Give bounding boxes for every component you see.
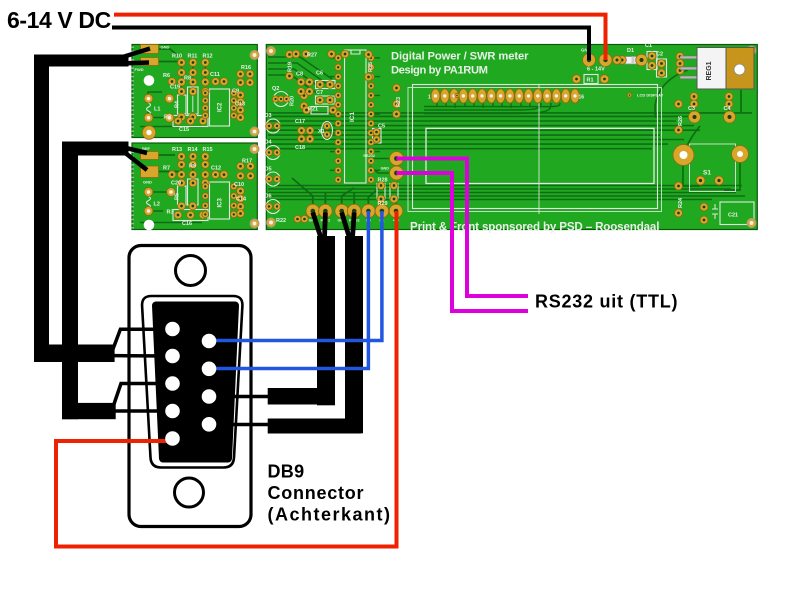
svg-text:R9: R9 (189, 164, 196, 170)
svg-text:R28: R28 (378, 178, 388, 184)
svg-text:IC3: IC3 (218, 198, 224, 208)
svg-text:Print & Front sponsored by PSD: Print & Front sponsored by PSD – Roosend… (410, 221, 659, 234)
svg-text:R22: R22 (276, 218, 286, 224)
svg-text:C17: C17 (295, 119, 305, 125)
svg-text:R12: R12 (203, 54, 213, 60)
svg-text:D3: D3 (265, 113, 272, 119)
svg-text:R1: R1 (587, 78, 594, 84)
wire A stub to pin2 (113, 354, 173, 358)
svg-text:C20: C20 (171, 181, 181, 187)
svg-text:R10: R10 (172, 54, 182, 60)
wire C stub to pin8 (209, 395, 269, 399)
board edge serration (131, 47, 134, 229)
wire D (to pin9) thick black (268, 236, 363, 434)
svg-text:R23: R23 (396, 97, 402, 107)
silkscreen labels (135, 43, 739, 234)
pads (141, 45, 757, 231)
DB9 pins 1-9 (165, 322, 216, 446)
PCB left sub-board REF (bottom) (132, 143, 257, 230)
svg-text:C14: C14 (236, 197, 247, 203)
wire coax A (FWD) thick black (34, 55, 129, 363)
svg-text:C7: C7 (316, 90, 323, 96)
svg-text:L1: L1 (154, 107, 160, 113)
svg-text:C10: C10 (234, 182, 244, 188)
svg-text:R4: R4 (175, 100, 181, 108)
svg-text:R24: R24 (678, 197, 684, 208)
regulator REG1 (680, 48, 754, 90)
svg-text:R25: R25 (368, 62, 374, 72)
svg-text:C15: C15 (179, 127, 189, 133)
svg-text:R13: R13 (172, 147, 182, 153)
svg-text:C4: C4 (724, 106, 732, 112)
svg-text:R14: R14 (188, 147, 199, 153)
svg-text:FWD: FWD (135, 67, 144, 72)
wire C (to pin8) thick black (268, 236, 335, 405)
svg-text:L2: L2 (154, 202, 160, 208)
wire coax B (REF) thick black (62, 142, 129, 420)
svg-text:RS232: RS232 (363, 154, 375, 158)
svg-text:C12: C12 (211, 166, 221, 172)
svg-text:C5: C5 (378, 124, 385, 130)
svg-text:C2: C2 (656, 52, 663, 58)
svg-text:R3: R3 (167, 210, 174, 216)
DB9 mounting hole top (176, 256, 206, 286)
wire B stub to pin4 (114, 409, 173, 413)
svg-text:R16: R16 (241, 65, 251, 71)
svg-text:R21: R21 (308, 107, 318, 113)
svg-text:C21: C21 (728, 213, 738, 219)
PCB main board (266, 45, 757, 230)
svg-text:R5: R5 (175, 193, 181, 200)
svg-text:IC1: IC1 (349, 112, 356, 123)
magenta wire GND (397, 173, 529, 311)
red wire +5v to pin5 (56, 211, 397, 547)
wire A stub to FWD pad (118, 63, 149, 64)
svg-text:RS232 uit (TTL): RS232 uit (TTL) (535, 292, 678, 312)
svg-text:GND: GND (161, 45, 170, 50)
svg-text:C1: C1 (645, 43, 652, 49)
wire C pcb stub from pad REF2 (322, 213, 328, 239)
svg-text:(Achterkant): (Achterkant) (268, 505, 392, 525)
svg-text:X1: X1 (318, 129, 325, 135)
wire D pcb stub from pad FWD2 (353, 213, 355, 239)
DB9 D-face outline (142, 296, 242, 468)
svg-text:LCD DISPLAY: LCD DISPLAY (637, 93, 664, 98)
svg-text:D4: D4 (265, 140, 273, 146)
svg-text:R19: R19 (288, 62, 294, 72)
silkscreen outlines (147, 50, 755, 225)
wire C pcb stub from pad GND (313, 213, 321, 239)
svg-text:Design by PA1RUM: Design by PA1RUM (391, 65, 488, 77)
svg-text:C3: C3 (688, 106, 695, 112)
magenta wire RS232 (397, 159, 529, 297)
svg-text:R11: R11 (188, 54, 198, 60)
svg-text:6 - 14V: 6 - 14V (587, 67, 605, 73)
svg-text:R17: R17 (242, 159, 252, 165)
blue wire D0 to pin7 (209, 211, 368, 369)
power wire black GND (112, 28, 589, 61)
svg-text:IC2: IC2 (218, 102, 224, 112)
svg-text:R8: R8 (184, 76, 191, 82)
svg-text:R15: R15 (203, 147, 213, 153)
svg-text:S1: S1 (703, 170, 711, 177)
svg-text:6-14 V DC: 6-14 V DC (7, 7, 111, 33)
svg-text:C18: C18 (295, 145, 305, 151)
svg-text:GND: GND (381, 167, 390, 171)
svg-text:R20: R20 (290, 96, 296, 106)
svg-text:Digital Power / SWR meter: Digital Power / SWR meter (391, 51, 529, 63)
svg-text:DB9: DB9 (268, 462, 305, 482)
blue wire D1 to pin6 (209, 211, 382, 341)
svg-text:C8: C8 (296, 72, 303, 78)
svg-text:R7: R7 (163, 166, 170, 172)
wire D pcb stub from pad GND2 (342, 213, 350, 239)
power wire red 6-14V (114, 15, 606, 60)
wire B stub to pin3 (114, 384, 173, 405)
PCB left sub-board FWD (top) (132, 45, 257, 138)
svg-text:C13: C13 (235, 102, 245, 108)
svg-text:C19: C19 (170, 85, 180, 91)
svg-text:16: 16 (579, 95, 585, 101)
svg-text:C6: C6 (316, 71, 323, 77)
svg-text:R27: R27 (307, 53, 317, 59)
DB9 mounting hole bottom (175, 478, 204, 507)
svg-text:GND: GND (143, 180, 152, 185)
svg-text:C11: C11 (210, 72, 220, 78)
svg-text:Q2: Q2 (272, 86, 279, 92)
svg-text:R26: R26 (678, 116, 684, 126)
svg-text:C16: C16 (182, 221, 192, 227)
wire A stub to GND pad (118, 49, 150, 59)
wire B stub to REF pad (126, 148, 147, 153)
svg-text:D5: D5 (265, 167, 272, 173)
svg-text:R2: R2 (164, 115, 171, 121)
wire A stub to pin1 (113, 329, 173, 349)
wire D stub to pin9 (209, 423, 269, 427)
svg-text:R29: R29 (378, 201, 388, 207)
svg-text:C9: C9 (232, 89, 239, 95)
svg-text:REG1: REG1 (706, 61, 713, 80)
svg-text:D6: D6 (265, 194, 272, 200)
svg-text:1: 1 (428, 95, 431, 101)
pcb traces (140, 49, 752, 223)
wire B stub to GND pad (126, 154, 147, 171)
svg-text:Connector: Connector (268, 483, 365, 503)
svg-text:R6: R6 (163, 73, 170, 79)
DB9 connector body (129, 246, 251, 527)
DB9 D-face black area (156, 306, 235, 459)
svg-text:D1: D1 (627, 48, 634, 54)
